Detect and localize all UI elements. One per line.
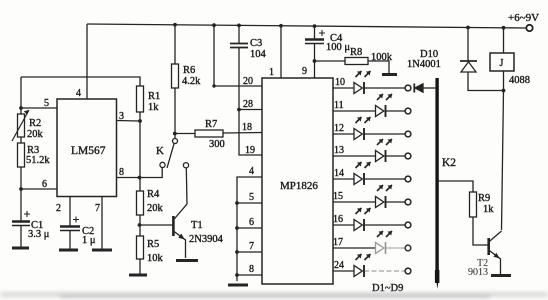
svg-text:104: 104 (250, 49, 267, 60)
ground bus (228, 284, 248, 287)
svg-text:T1: T1 (191, 220, 203, 231)
svg-text:2N3904: 2N3904 (189, 234, 224, 245)
wire C4 to pin9 (314, 44, 316, 79)
node rail R6 (173, 23, 177, 27)
wire to R8 (315, 60, 346, 62)
node pin8 wire junction (138, 176, 142, 180)
ground pin7 (92, 249, 112, 252)
svg-text:4088: 4088 (509, 75, 530, 86)
node rail diode (466, 26, 470, 30)
svg-text:1: 1 (269, 67, 274, 78)
node rail pin20 (212, 23, 216, 27)
antenna bar K2 (435, 78, 440, 289)
node pin20 corner (212, 84, 215, 87)
svg-text:10: 10 (335, 77, 345, 88)
node R1-pin3 junction (138, 119, 142, 123)
node rail relay (502, 26, 506, 30)
wire R4 to R5 (139, 215, 141, 236)
capacitor C3 (230, 44, 248, 48)
LED row D5 pin14 (333, 162, 411, 185)
wire rail to R6 (174, 25, 176, 64)
resistor R4 (137, 191, 144, 215)
svg-text:12: 12 (334, 123, 344, 134)
wire rail to pin1 (280, 26, 282, 78)
svg-text:9013: 9013 (468, 267, 488, 278)
node bus pin5 (235, 201, 239, 205)
svg-text:14: 14 (334, 168, 344, 179)
transistor T2 9013 (489, 231, 502, 274)
node rail C4 (313, 24, 317, 28)
svg-text:100 μ: 100 μ (326, 42, 350, 53)
svg-text:13: 13 (334, 145, 344, 156)
capacitor C1 (12, 211, 30, 226)
LED row D2 pin11 (333, 94, 411, 117)
wire to R7 (175, 133, 195, 135)
node relay bottom junction (502, 89, 506, 93)
wire pin6 (237, 227, 262, 229)
wire feedback top loop R2 to R1 (21, 77, 140, 86)
wire pin5 (237, 202, 262, 204)
wire R2 to R3 (20, 137, 22, 143)
svg-text:K2: K2 (442, 157, 456, 169)
node rail C3 (237, 24, 241, 28)
resistor R3 (18, 143, 25, 167)
wire rail to C3 (238, 25, 240, 43)
svg-text:7: 7 (249, 241, 254, 252)
svg-text:1k: 1k (483, 204, 494, 215)
ground R5 (129, 274, 147, 277)
ground C1 (12, 247, 29, 250)
resistor R9 (470, 192, 477, 217)
svg-text:4: 4 (76, 88, 81, 99)
svg-text:51.2k: 51.2k (26, 155, 50, 166)
wire C1 to ground (20, 226, 22, 248)
svg-text:28: 28 (243, 99, 253, 110)
resistor R6 (172, 64, 179, 88)
wire left column top (20, 77, 22, 114)
svg-text:R6: R6 (183, 65, 195, 76)
svg-text:6: 6 (249, 217, 254, 228)
resistor R5 (137, 236, 144, 259)
svg-text:3: 3 (119, 111, 124, 122)
svg-text:5: 5 (44, 98, 49, 109)
transistor T1 2N3904 (173, 168, 187, 258)
node R6-R7 junction (173, 132, 177, 136)
wire R3 down to C1 (20, 167, 22, 221)
wire LM567 pin8 to switch K (117, 168, 163, 178)
svg-text:100k: 100k (371, 52, 393, 63)
node bus pin7 (235, 250, 239, 254)
svg-text:1 μ: 1 μ (82, 235, 96, 246)
resistor R7 (195, 130, 223, 137)
LED row D6 pin15 (333, 185, 411, 208)
node bus pin8 (235, 273, 239, 277)
svg-text:15: 15 (333, 191, 343, 202)
LED row D7 pin16 (333, 208, 411, 231)
wire LM567 pin5 (21, 107, 57, 109)
svg-text:5: 5 (249, 192, 254, 203)
wire junction down to R4 (139, 121, 141, 191)
wire LM567 pin6 (21, 188, 57, 190)
wire rail to relay (503, 28, 505, 53)
wire T1 base (140, 224, 173, 226)
wire C3 to pin28 and pin19 (239, 48, 262, 156)
wire K2 to R9 (439, 181, 473, 192)
wire R5 to ground (139, 259, 141, 274)
svg-text:300: 300 (209, 139, 225, 150)
svg-text:1k: 1k (148, 102, 159, 113)
svg-text:R8: R8 (350, 47, 362, 58)
svg-text:20k: 20k (147, 203, 164, 214)
node T1 base junction (138, 223, 142, 227)
diode VD flyback (460, 61, 477, 72)
svg-text:6: 6 (42, 179, 47, 190)
wire R1 bottom to junction (139, 112, 141, 121)
wire pin4 riser LM567 (86, 24, 88, 99)
svg-text:C3: C3 (250, 38, 262, 49)
terminal +6~9V (526, 25, 532, 31)
wire relay to T2 collector (502, 71, 504, 230)
resistor R1 (137, 86, 144, 112)
node pin5 junction (19, 106, 23, 110)
relay J box (490, 53, 514, 71)
IC U2 MP1826 box (262, 78, 333, 284)
svg-text:4: 4 (249, 166, 254, 177)
svg-text:16: 16 (333, 214, 343, 225)
wire R7 to pin18 (223, 132, 262, 135)
IC U1 LM567 box (57, 99, 117, 197)
node bus pin6 (235, 226, 239, 230)
svg-text:20: 20 (243, 76, 253, 87)
svg-text:3.3 μ: 3.3 μ (28, 229, 50, 240)
ground R8 (382, 73, 397, 76)
resistor R2 (12, 110, 29, 141)
svg-text:2: 2 (56, 203, 61, 214)
svg-text:R5: R5 (147, 239, 159, 250)
ground T2 (491, 274, 511, 277)
LED row D8 pin17 faint (333, 231, 411, 254)
svg-text:9: 9 (302, 66, 307, 77)
svg-text:4.2k: 4.2k (182, 76, 201, 87)
wire rail to pin20 (214, 25, 262, 86)
wire R8 to ground (368, 61, 389, 73)
node R8 tap (313, 59, 317, 63)
svg-text:R4: R4 (147, 189, 160, 200)
svg-text:10k: 10k (147, 253, 164, 264)
diode D10 (414, 84, 435, 93)
svg-text:R1: R1 (148, 91, 160, 102)
scan smudge bottom (0, 292, 548, 297)
wire LM567 pin3 to R1 (117, 120, 141, 123)
LED row D9 pin24 (333, 254, 411, 277)
LED row D4 pin13 (333, 139, 411, 162)
wire pin28 (239, 109, 262, 111)
wire pin8 (237, 274, 262, 276)
svg-text:8: 8 (249, 264, 254, 275)
switch K (160, 139, 189, 169)
svg-text:11: 11 (334, 100, 344, 111)
node pin6 junction (19, 187, 23, 191)
svg-text:19: 19 (245, 145, 255, 156)
wire pin7 (237, 251, 262, 253)
wire R9 to T2 base (473, 217, 488, 245)
resistor R8 (345, 58, 368, 65)
ground T1 (176, 259, 198, 262)
wire LM567 pin2 to C2 (69, 197, 71, 227)
capacitor C4 (305, 30, 325, 44)
LED row D1 pin10 (333, 71, 411, 94)
wire diode to relay bottom (468, 72, 504, 91)
node pin28 tap (237, 108, 241, 112)
svg-text:+6~9V: +6~9V (508, 12, 539, 24)
wire pin4 to bus (237, 177, 262, 281)
svg-text:18: 18 (242, 122, 252, 133)
svg-text:R9: R9 (478, 193, 490, 204)
svg-text:20k: 20k (27, 129, 44, 140)
wire C2 to ground (69, 231, 71, 250)
wire LM567 pin7 to ground (101, 197, 103, 250)
svg-text:7: 7 (95, 203, 100, 214)
ground C2 (59, 249, 78, 252)
capacitor C2 (60, 217, 80, 231)
wire R6 to K common (174, 88, 176, 139)
wire top power rail (87, 24, 526, 28)
svg-text:1N4001: 1N4001 (407, 59, 441, 70)
svg-text:R2: R2 (29, 118, 41, 129)
node rail pin1 (279, 24, 283, 28)
wire rail to C4 (314, 26, 316, 39)
svg-text:K: K (156, 145, 164, 157)
LED row D3 pin12 (333, 117, 411, 140)
svg-text:17: 17 (333, 237, 343, 248)
svg-text:R7: R7 (205, 119, 217, 130)
svg-text:8: 8 (119, 167, 124, 178)
wire rail to flyback diode (467, 28, 469, 62)
svg-text:24: 24 (334, 260, 344, 271)
